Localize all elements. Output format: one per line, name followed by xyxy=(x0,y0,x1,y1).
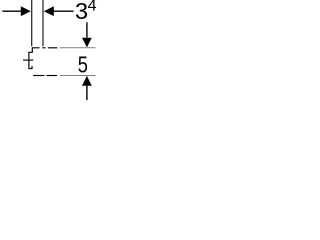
wire gray line B xyxy=(60,75,96,77)
wire top edge dash 1 xyxy=(42,47,45,49)
technical dimension drawing xyxy=(0,0,100,100)
node arrowhead left-pointing xyxy=(44,6,54,16)
node flange xyxy=(23,59,33,61)
node arrowhead down-pointing xyxy=(82,38,92,48)
node extension line 1 xyxy=(31,0,33,46)
svg-text:4: 4 xyxy=(88,0,97,15)
wire dimension-5 upper stem xyxy=(86,22,88,37)
wire gray line A xyxy=(60,47,96,49)
wire top edge dash 2 xyxy=(48,47,58,49)
wire bottom dash 2 xyxy=(46,75,57,77)
wire dimension-3 left shaft xyxy=(2,10,21,12)
node arrowhead up-pointing xyxy=(82,76,92,86)
node arrowhead right-pointing xyxy=(21,6,31,16)
svg-text:3: 3 xyxy=(75,0,88,24)
wire dimension-5 lower stem xyxy=(86,86,88,100)
node profile outline xyxy=(29,48,40,69)
node extension line 2 xyxy=(42,0,44,46)
svg-text:5: 5 xyxy=(78,52,88,78)
wire dimension-3 right shaft xyxy=(54,10,74,12)
wire bottom dash 1 xyxy=(33,75,45,77)
